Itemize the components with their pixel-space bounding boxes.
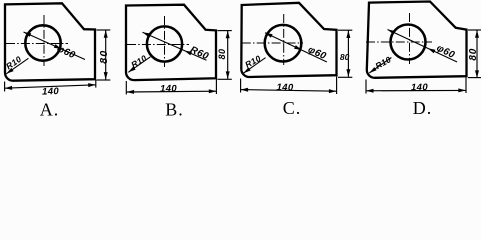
140 dimension left extension line of part A xyxy=(4,82,6,92)
arrowhead at circle edge, lower-right, of diameter line D xyxy=(428,48,436,53)
140 dimension line (horizontal) of part C xyxy=(241,90,337,92)
arrowhead at upper-left end of diameter line B xyxy=(143,32,151,37)
140 dimension right extension line of part A xyxy=(95,80,97,88)
140 dimension right extension line of part B xyxy=(215,79,217,94)
vertical centerline of part D xyxy=(409,13,411,64)
circle (60 hole) of part B xyxy=(147,26,182,61)
svg-text:140: 140 xyxy=(160,83,177,94)
140 dimension right arrowhead of part C xyxy=(329,89,337,93)
arrowhead at upper-left end of diameter line A xyxy=(24,32,32,37)
80 dimension bottom extension line of part D xyxy=(468,77,481,79)
svg-text:80: 80 xyxy=(468,48,479,61)
svg-text:140: 140 xyxy=(276,82,294,93)
80 dimension bottom arrowhead of part C xyxy=(346,69,350,77)
R10 leader line of part A xyxy=(6,58,28,74)
horizontal centerline of part D xyxy=(366,41,432,43)
diameter dimension line (diagonal) of part A xyxy=(24,32,86,60)
80 dimension top arrowhead of part A xyxy=(104,30,108,38)
svg-text:80: 80 xyxy=(217,48,227,59)
140 dimension left extension line of part C xyxy=(240,79,242,93)
R10 leader arrowhead at fillet of part C xyxy=(243,67,250,73)
140 dimension right arrowhead of part A xyxy=(88,83,96,87)
vertical centerline of part C xyxy=(283,14,285,65)
80 dimension bottom arrowhead of part D xyxy=(475,70,479,78)
vertical centerline of part A xyxy=(43,15,45,66)
80 dimension bottom arrowhead of part B xyxy=(226,71,230,79)
R10 leader line of part C xyxy=(243,58,265,73)
80 dimension line (vertical) of part D xyxy=(476,30,478,78)
140 dimension right extension line of part D xyxy=(465,78,467,94)
outline of part C (rectangle with chamfered top-right corner and R10 fillet) xyxy=(241,3,336,77)
svg-text:A.: A. xyxy=(40,100,60,120)
80 dimension top arrowhead of part C xyxy=(346,31,350,39)
140 dimension left arrowhead of part B xyxy=(127,90,135,94)
80 dimension bottom extension line of part C xyxy=(338,76,352,78)
140 dimension right arrowhead of part D xyxy=(458,88,466,92)
arrowhead at circle edge, lower-right, of diameter line B xyxy=(184,51,192,56)
svg-text:80: 80 xyxy=(340,52,350,62)
80 dimension line (vertical) of part B xyxy=(227,31,229,79)
140 dimension left arrowhead of part C xyxy=(241,88,249,92)
circle (60 hole) of part D xyxy=(391,25,426,60)
arrowhead at upper-left end of diameter line D xyxy=(388,30,396,35)
140 dimension left extension line of part B xyxy=(125,81,127,95)
80 dimension bottom arrowhead of part A xyxy=(104,72,108,80)
80 dimension line (vertical) of part C xyxy=(347,31,349,77)
80 dimension top extension line of part C xyxy=(338,29,352,31)
diameter dimension line (diagonal) of part D xyxy=(388,30,458,63)
svg-text:C.: C. xyxy=(283,98,302,118)
140 dimension line (horizontal) of part D xyxy=(366,89,466,91)
80 dimension top extension line of part D xyxy=(468,29,481,31)
R10 leader line of part B xyxy=(128,57,150,73)
R10 leader line of part D xyxy=(369,58,391,74)
80 dimension top arrowhead of part B xyxy=(226,31,230,39)
R10 leader arrowhead at fillet of part A xyxy=(6,68,13,74)
80 dimension bottom extension line of part B xyxy=(218,78,232,80)
arrowhead at circle edge, lower-right, of diameter line C xyxy=(294,45,302,50)
140 dimension left arrowhead of part A xyxy=(5,86,13,90)
diameter dimension line (diagonal) of part C xyxy=(265,33,327,62)
outline of part D (rectangle with chamfered top-right corner and R10 fillet) xyxy=(367,2,467,78)
outline of part B (rectangle with chamfered top-right corner and R10 fillet) xyxy=(126,5,216,80)
arrowhead at circle edge, lower-right, of diameter line A xyxy=(54,44,62,49)
140 dimension line (horizontal) of part A xyxy=(5,85,96,88)
outline of part A (rectangle with chamfered top-right corner and R10 fillet) xyxy=(5,3,95,80)
140 dimension line (horizontal) of part B xyxy=(127,90,217,93)
svg-text:80: 80 xyxy=(98,49,110,63)
arrowhead at upper-left end of diameter line C xyxy=(265,33,273,38)
diameter dimension line (diagonal) of part B xyxy=(143,32,207,60)
svg-text:140: 140 xyxy=(42,86,60,98)
140 dimension right arrowhead of part B xyxy=(209,89,217,93)
svg-text:B.: B. xyxy=(165,100,184,120)
horizontal centerline of part C xyxy=(242,42,303,44)
140 dimension left arrowhead of part D xyxy=(366,89,374,93)
svg-text:D.: D. xyxy=(413,98,433,118)
80 dimension bottom extension line of part A xyxy=(97,79,111,81)
80 dimension top arrowhead of part D xyxy=(475,30,479,38)
80 dimension top extension line of part B xyxy=(218,30,232,32)
circle (60 hole) of part C xyxy=(265,25,302,62)
140 dimension left extension line of part D xyxy=(365,80,367,94)
horizontal centerline of part A xyxy=(6,43,68,45)
svg-text:140: 140 xyxy=(411,82,428,93)
vertical centerline of part B xyxy=(164,16,166,67)
80 dimension top extension line of part A xyxy=(97,29,111,31)
horizontal centerline of part B xyxy=(127,44,189,46)
R10 leader arrowhead at fillet of part D xyxy=(369,67,376,73)
circle (60 hole) of part A xyxy=(25,25,60,60)
R10 leader arrowhead at fillet of part B xyxy=(128,66,135,72)
80 dimension line (vertical) of part A xyxy=(105,30,107,79)
140 dimension right extension line of part C xyxy=(336,77,338,95)
